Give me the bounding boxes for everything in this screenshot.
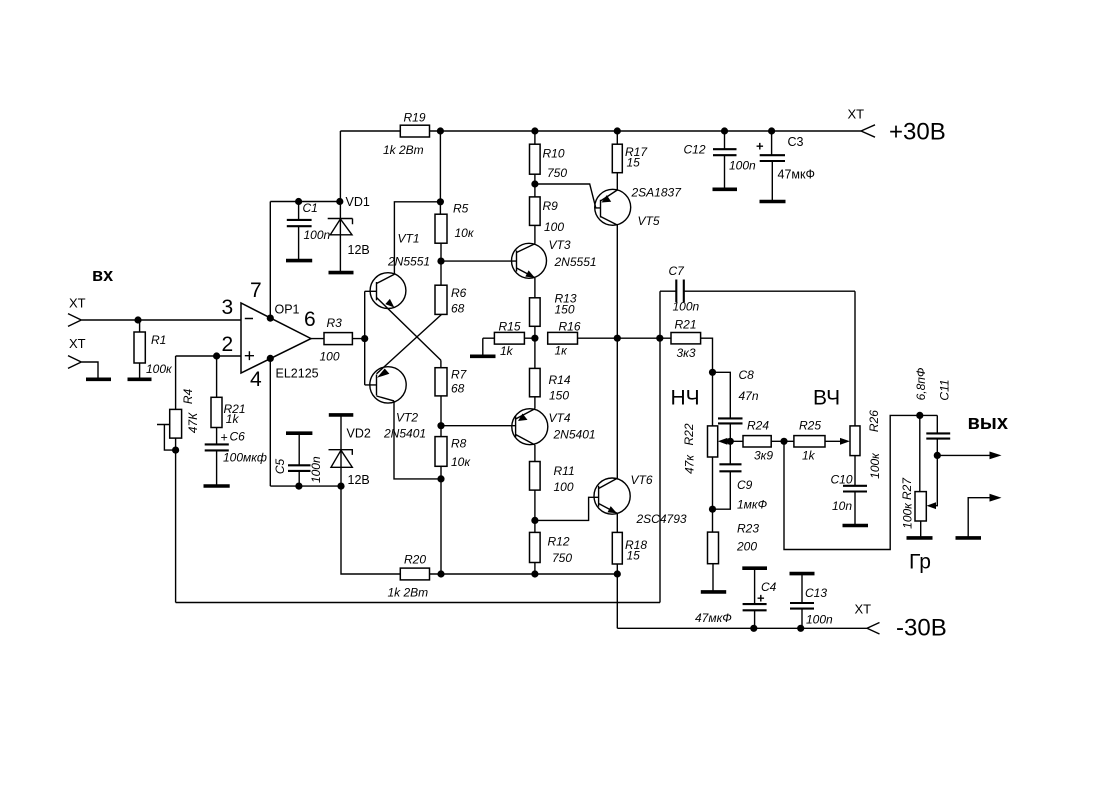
svg-text:R5: R5	[453, 202, 469, 216]
wire down to -30V rail	[616, 574, 618, 628]
capacitor C3	[771, 131, 774, 201]
wire input 2 to ground	[81, 362, 98, 378]
svg-text:C7: C7	[669, 264, 686, 278]
svg-text:VT3: VT3	[549, 238, 571, 252]
node rail R17	[614, 127, 621, 134]
resistor R18	[612, 532, 622, 564]
svg-text:100мкф: 100мкф	[223, 450, 267, 464]
svg-text:2N5401: 2N5401	[383, 427, 426, 441]
resistor R15	[483, 337, 535, 339]
node rail R5 column	[437, 127, 444, 134]
svg-text:100n: 100n	[806, 613, 833, 627]
transistor VT5 2SA1837	[595, 189, 631, 225]
ground under R23	[701, 590, 726, 594]
node R10/R9 VT5 base	[531, 180, 538, 187]
svg-text:150: 150	[555, 303, 575, 317]
svg-text:XT: XT	[855, 602, 872, 617]
resistor R17	[616, 131, 618, 190]
svg-text:6,8пФ: 6,8пФ	[914, 367, 928, 400]
capacitor C9	[713, 441, 731, 509]
svg-text:XT: XT	[69, 296, 86, 311]
svg-text:C8: C8	[739, 368, 755, 382]
node R24/R25	[780, 438, 787, 445]
potentiometer R4	[170, 409, 182, 438]
transistor VT1 2N5551	[370, 273, 406, 309]
wire to VT3 base	[441, 260, 517, 262]
ground under VD1	[329, 271, 354, 275]
resistor R6	[435, 285, 447, 314]
wire -12V node	[270, 485, 341, 487]
svg-text:R9: R9	[543, 199, 559, 213]
svg-text:Гр: Гр	[909, 551, 931, 574]
wire output arrow 1	[937, 454, 990, 456]
ground under C1	[286, 259, 312, 263]
svg-text:VT6: VT6	[631, 473, 653, 487]
svg-text:3к9: 3к9	[754, 448, 773, 462]
resistor R9	[530, 197, 541, 226]
svg-text:100к: 100к	[146, 362, 173, 376]
resistor R7	[440, 360, 442, 367]
resistor R25	[784, 440, 842, 442]
svg-text:10к: 10к	[451, 455, 471, 469]
svg-text:15: 15	[627, 156, 641, 170]
svg-text:C13: C13	[805, 586, 827, 600]
capacitor C5	[286, 431, 312, 435]
svg-text:ВЧ: ВЧ	[813, 387, 840, 410]
svg-text:12В: 12В	[348, 243, 370, 257]
connector XT input 1	[68, 314, 81, 327]
node R7/R8 VT4 base	[437, 422, 444, 429]
zener VD1	[336, 198, 343, 205]
svg-text:C5: C5	[273, 459, 287, 475]
svg-text:100n: 100n	[309, 456, 323, 483]
svg-text:1k: 1k	[500, 344, 514, 358]
svg-text:R25: R25	[799, 419, 821, 433]
svg-text:2N5401: 2N5401	[553, 427, 596, 441]
svg-text:R19: R19	[404, 110, 426, 124]
resistor R24	[730, 440, 784, 442]
wire output feed	[784, 415, 937, 549]
resistor R21 3к3	[660, 338, 713, 372]
svg-text:100: 100	[320, 350, 340, 364]
svg-text:2: 2	[222, 333, 234, 356]
resistor R10	[534, 131, 536, 197]
capacitor C4	[742, 566, 767, 570]
svg-text:1k 2Вт: 1k 2Вт	[383, 143, 424, 157]
connector XT -30V	[867, 623, 880, 635]
svg-text:OP1: OP1	[275, 303, 300, 317]
svg-text:НЧ: НЧ	[671, 387, 700, 410]
node VT2 collector / R8	[437, 475, 444, 482]
svg-text:68: 68	[451, 301, 465, 315]
wire pin 2	[176, 355, 241, 357]
wire to R27 wiper	[934, 455, 937, 505]
wire +12V node	[270, 201, 340, 203]
svg-text:C11: C11	[937, 379, 951, 400]
svg-text:R11: R11	[554, 464, 575, 478]
output 2 ground return	[956, 536, 982, 540]
capacitor C12	[724, 131, 726, 188]
resistor R23	[712, 509, 715, 591]
node R11/R12 VT6 base	[531, 517, 538, 524]
node rail C12	[721, 127, 728, 134]
svg-text:2N5551: 2N5551	[387, 255, 430, 269]
transistor VT3 2N5551	[512, 243, 547, 278]
wire VT1/VT2 base column	[364, 291, 366, 385]
svg-text:C3: C3	[788, 135, 804, 149]
svg-text:2SA1837: 2SA1837	[631, 186, 683, 200]
wire pin2 down to R4	[175, 356, 177, 409]
svg-text:VT5: VT5	[638, 214, 660, 228]
svg-text:R1: R1	[151, 333, 166, 347]
node R22 wiper	[727, 438, 734, 445]
svg-text:10к: 10к	[455, 226, 475, 240]
svg-text:750: 750	[547, 166, 567, 180]
resistor R5	[435, 214, 447, 243]
potentiometer R22	[712, 372, 714, 509]
resistor R8	[435, 437, 447, 467]
svg-text:100: 100	[544, 220, 564, 234]
wire +30V rail	[340, 131, 861, 202]
wire -12V down to R20	[341, 486, 400, 574]
svg-text:R14: R14	[549, 373, 571, 387]
ground under C3	[760, 200, 786, 204]
svg-text:R4: R4	[181, 389, 195, 405]
svg-text:100к: 100к	[901, 502, 915, 529]
node input junction	[134, 316, 141, 323]
svg-text:3к3: 3к3	[677, 346, 696, 360]
svg-text:XT: XT	[69, 336, 86, 351]
svg-text:47мкФ: 47мкФ	[778, 168, 815, 182]
capacitor C11	[936, 415, 938, 455]
capacitor C1	[295, 198, 302, 205]
node R4 wiper	[172, 447, 179, 454]
capacitor C7	[660, 290, 855, 292]
svg-text:C6: C6	[230, 429, 246, 443]
svg-text:C9: C9	[737, 478, 753, 492]
node R22/C9/R23	[709, 506, 716, 513]
svg-text:R27: R27	[900, 477, 914, 500]
op-amp U1 EL2125	[241, 303, 311, 373]
capacitor C8	[713, 372, 731, 441]
node R3 output	[361, 335, 368, 342]
wire pin 7	[269, 202, 271, 318]
svg-text:150: 150	[549, 388, 569, 402]
svg-text:1мкФ: 1мкФ	[737, 498, 768, 512]
svg-text:R22: R22	[682, 423, 696, 445]
resistor R19	[400, 125, 429, 137]
node C11 bottom	[934, 452, 941, 459]
svg-text:47мкФ: 47мкФ	[695, 611, 732, 625]
resistor R13	[530, 298, 541, 327]
ground input 2	[86, 377, 111, 381]
svg-text:100n: 100n	[304, 228, 331, 242]
node rail R10	[531, 127, 538, 134]
connector XT +30V	[861, 125, 875, 137]
wire to VT4 base	[441, 425, 516, 427]
svg-text:6: 6	[304, 308, 316, 331]
node rail C3	[768, 127, 775, 134]
svg-text:R26: R26	[867, 410, 881, 432]
node feedback column	[656, 335, 663, 342]
svg-text:68: 68	[451, 382, 465, 396]
wire bottom row	[430, 573, 618, 575]
node R22 top	[709, 369, 716, 376]
ground under C6	[204, 484, 230, 488]
svg-text:-30В: -30В	[896, 615, 947, 642]
svg-text:47к: 47к	[683, 454, 697, 474]
wire pin 4	[269, 358, 271, 486]
wire to VT5 base	[535, 184, 601, 208]
svg-text:C1: C1	[303, 201, 318, 215]
node VT5 column	[614, 335, 621, 342]
wire input to pin 3	[81, 319, 241, 321]
svg-text:VT4: VT4	[549, 411, 571, 425]
svg-text:4: 4	[250, 368, 262, 391]
svg-text:750: 750	[552, 551, 572, 565]
zener VD2	[329, 413, 354, 417]
svg-text:R15: R15	[499, 320, 521, 334]
svg-text:R12: R12	[548, 535, 570, 549]
svg-text:12В: 12В	[348, 473, 370, 487]
wire rail to R5/VT1 collector	[394, 131, 440, 274]
svg-text:100к: 100к	[868, 452, 882, 479]
transistor VT2 2N5401	[370, 367, 406, 403]
resistor R14	[534, 338, 536, 409]
ground under C10	[843, 524, 869, 528]
svg-text:3: 3	[222, 296, 234, 319]
node R5/R6 VT3 base	[437, 258, 444, 265]
svg-text:100n: 100n	[729, 159, 756, 173]
svg-text:1к: 1к	[555, 344, 569, 358]
svg-text:R24: R24	[747, 419, 769, 433]
svg-text:10n: 10n	[832, 499, 852, 513]
resistor R3	[311, 338, 365, 340]
svg-text:1k 2Вт: 1k 2Вт	[388, 586, 429, 600]
node R27 top	[916, 412, 923, 419]
svg-text:7: 7	[250, 279, 262, 302]
resistor R21 1k	[216, 356, 218, 444]
svg-text:VT2: VT2	[396, 411, 418, 425]
svg-text:2N5551: 2N5551	[554, 255, 597, 269]
svg-text:47n: 47n	[739, 389, 759, 403]
svg-text:+: +	[757, 591, 765, 606]
connector XT input 2	[68, 356, 81, 369]
svg-text:EL2125: EL2125	[276, 367, 319, 381]
svg-text:XT: XT	[848, 107, 865, 122]
svg-text:200: 200	[736, 540, 757, 554]
svg-text:R8: R8	[451, 436, 467, 450]
resistor R12	[530, 532, 541, 562]
svg-text:VT1: VT1	[398, 231, 420, 245]
svg-text:15: 15	[627, 549, 641, 563]
svg-text:R7: R7	[451, 367, 468, 381]
svg-text:C12: C12	[684, 143, 706, 157]
svg-text:47К: 47К	[186, 412, 200, 433]
svg-text:100n: 100n	[673, 300, 700, 314]
potentiometer R26	[854, 291, 856, 486]
resistor R16	[548, 332, 578, 344]
capacitor C10	[843, 486, 867, 492]
svg-text:100: 100	[554, 480, 574, 494]
svg-text:R10: R10	[543, 147, 565, 161]
wire VT5 collector to VT6	[616, 225, 618, 478]
svg-text:R16: R16	[559, 320, 581, 334]
svg-text:вых: вых	[968, 412, 1009, 434]
svg-text:+30В: +30В	[889, 119, 946, 146]
svg-text:+: +	[756, 139, 764, 154]
wire feedback line	[176, 291, 660, 602]
svg-text:R23: R23	[737, 522, 759, 536]
node pin 2 / R21	[213, 352, 220, 359]
svg-text:R21: R21	[675, 318, 697, 332]
svg-text:2SC4793: 2SC4793	[636, 512, 687, 526]
svg-text:VD2: VD2	[347, 427, 371, 441]
svg-text:1k: 1k	[802, 448, 816, 462]
ground at R15	[482, 338, 484, 355]
svg-text:+: +	[221, 430, 228, 444]
ground under C12	[713, 188, 738, 192]
svg-text:R6: R6	[451, 286, 467, 300]
svg-text:R3: R3	[327, 316, 343, 330]
transistor VT4 2N5401	[512, 409, 548, 445]
resistor R11	[530, 462, 541, 491]
resistor R1	[139, 320, 141, 378]
ground under R27	[907, 536, 933, 540]
capacitor C6	[205, 444, 229, 450]
wire R4 to feedback line	[175, 450, 177, 602]
svg-text:C10: C10	[831, 472, 853, 486]
node R13/R15/R16	[531, 335, 538, 342]
potentiometer R27	[919, 415, 922, 537]
resistor R20	[400, 568, 429, 580]
wire -30V rail	[617, 627, 867, 629]
svg-text:1k: 1k	[226, 412, 240, 426]
wire to VT6 base	[535, 497, 599, 520]
svg-text:R20: R20	[404, 553, 426, 567]
capacitor C13	[790, 572, 815, 576]
ground under R1	[128, 377, 152, 381]
svg-text:вх: вх	[92, 265, 113, 285]
svg-text:VD1: VD1	[346, 195, 370, 209]
transistor VT6 2SC4793	[594, 478, 630, 514]
